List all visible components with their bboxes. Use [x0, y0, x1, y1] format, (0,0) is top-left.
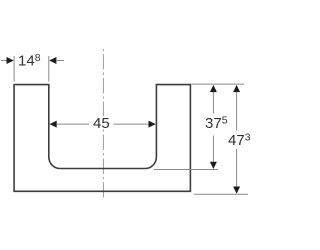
centerline (vertical dash-dot axis), broken around "45" label	[102, 49, 104, 198]
U-shaped outline of cutout	[14, 85, 190, 192]
extension line top-right (from outer top edge)	[192, 83, 245, 85]
dimension 37.5 line upper segment	[212, 92, 214, 114]
extension line left (x=14.1) for 14.8 dim	[13, 56, 15, 82]
dimension 45 line right segment	[113, 123, 148, 125]
dimension 45 line left segment	[57, 123, 90, 125]
dimension 47.3 top arrow (points up)	[233, 85, 240, 92]
dimension 14.8 right tail	[56, 60, 64, 62]
svg-text:45: 45	[93, 115, 110, 132]
dimension 47.3 line lower segment	[236, 149, 238, 186]
dimension 45 left arrow (points left, tip at inner left edge)	[50, 121, 57, 128]
dimension 47.3 line upper segment	[236, 92, 238, 131]
dimension 14.8 right arrow (points left)	[49, 57, 56, 64]
extension line from inner bottom (for 37.5 dim)	[154, 169, 218, 171]
dimension 47.3 bottom arrow (points down)	[233, 187, 240, 194]
dimension 14.8 left arrow (points right)	[7, 57, 14, 64]
extension line right (x=48.8) for 14.8 dim	[48, 56, 50, 82]
dimension 37.5 bottom arrow (points down)	[210, 162, 217, 169]
dimension 37.5 line lower segment	[212, 135, 214, 162]
dimension 37.5 top arrow (points up)	[210, 85, 217, 92]
dimension 45 right arrow (points right, tip at inner right edge)	[149, 121, 156, 128]
dimension 14.8 left tail	[1, 60, 7, 62]
extension line bottom-right (for 47.3 dim)	[194, 193, 248, 195]
